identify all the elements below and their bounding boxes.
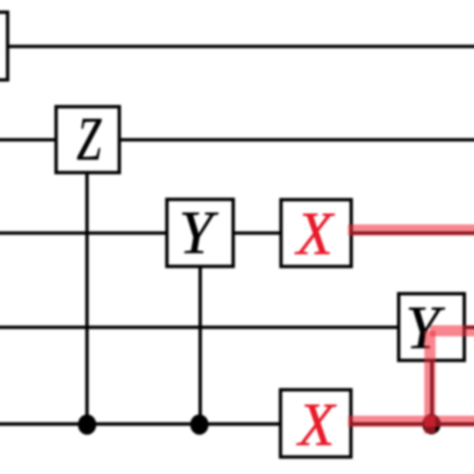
highlight band on q3 after X1 xyxy=(348,224,474,235)
svg-text:Z: Z xyxy=(77,104,103,173)
wire q4 xyxy=(0,326,474,329)
gate box X1 xyxy=(281,200,351,267)
gate box (clipped) on q1 xyxy=(0,12,8,80)
wire q5 xyxy=(0,422,474,425)
wire q3 xyxy=(0,231,474,234)
gate box Y1 xyxy=(167,199,233,266)
highlight band on q4 after Y2 xyxy=(430,325,474,336)
highlight band on q5 after X2 xyxy=(348,416,474,427)
wire q2 xyxy=(0,138,474,141)
svg-text:X: X xyxy=(294,200,335,268)
control wire from Y2 to q5 xyxy=(430,327,433,424)
gate box X2 xyxy=(281,390,351,457)
svg-text:X: X xyxy=(295,391,336,459)
gate box Z xyxy=(56,107,119,173)
control dot for Y1 on q5 xyxy=(190,414,208,434)
control wire from Z to q5 xyxy=(85,140,88,425)
highlight band vertical Y2 to dot xyxy=(424,331,435,434)
wire q1 xyxy=(0,45,474,48)
control dot for Z on q5 xyxy=(78,414,96,434)
svg-text:Y: Y xyxy=(179,199,219,267)
control wire from Y1 to q5 xyxy=(198,233,201,425)
control dot for Y2 on q5 xyxy=(422,414,440,434)
gate box Y2 xyxy=(399,294,465,361)
